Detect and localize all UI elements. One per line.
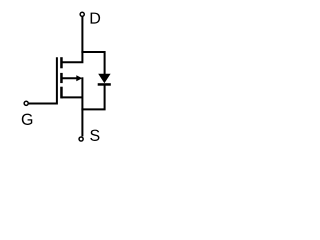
wire: source stub from bottom channel bar to source rail [61, 96, 82, 98]
wire: drain rail from D terminal down, then left to top channel bar [61, 16, 82, 62]
terminal S open circle [79, 137, 83, 141]
wire: diode bottom lead down and left to source rail [81, 86, 104, 110]
label S [90, 130, 99, 141]
diode D1 (body diode) triangle, cathode down [98, 74, 110, 83]
channel bar middle (body) [60, 73, 63, 83]
label G [22, 114, 32, 125]
terminal G open circle [24, 101, 28, 105]
diode D1 cathode bar [98, 83, 111, 86]
wire: branch from drain rail right and down to body diode top [81, 52, 104, 75]
gate plate vertical bar with gate lead wire to G terminal [29, 57, 57, 103]
wire: source rail from body-arrow junction down to S terminal [81, 77, 83, 136]
label D [91, 13, 100, 24]
body arrow head pointing right into source rail [76, 75, 82, 81]
wire: body stub from middle channel bar toward source rail [61, 77, 77, 79]
terminal D open circle [80, 12, 84, 16]
channel bar bottom (source side) [60, 87, 63, 99]
channel bar top (drain side) [60, 57, 63, 68]
